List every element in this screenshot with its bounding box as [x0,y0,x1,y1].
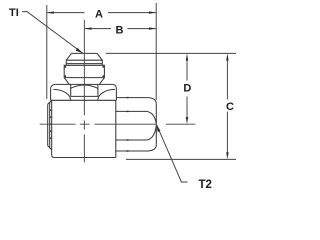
swivel nut right edge [155,104,157,145]
extension line left (A) [46,5,48,99]
hex face boundary left [70,84,72,96]
dimension C arrow up [226,53,228,60]
male stud top edge [71,52,97,54]
T1 leader arrowhead [76,48,83,53]
dimension C line [226,58,228,155]
extension line right (A,B) [155,3,157,100]
hex left scallop arc [53,89,70,100]
swivel nut T2 top edge [116,98,156,104]
swivel nut flat line lower [116,126,156,140]
svg-text:C: C [226,101,234,113]
hex corner round right [113,84,117,88]
dimension B arrow left [84,27,91,29]
body bottom edge [54,157,116,159]
collar strip bottom bevel [48,146,52,150]
hex middle face bottom [71,95,98,97]
stud flare seat line [66,59,102,61]
swivel nut flat line upper [116,111,156,123]
dimension A line [47,12,155,14]
T1 leader line [22,12,83,53]
stud lower chamfer right [99,78,104,85]
collar thread ticks [50,110,52,138]
horizontal centerline [40,123,196,125]
dimension D arrow up [186,53,188,60]
nut tick dots [127,98,129,151]
vertical centerline [83,20,85,162]
extension line top (C,D) [106,52,236,54]
svg-text:T2: T2 [199,179,212,191]
dimension D line [186,58,188,121]
swivel nut bottom edge [116,145,157,151]
thread tick marks [65,66,103,77]
svg-text:D: D [183,83,191,95]
collar strip right edge [49,102,51,149]
stud flare base line [66,63,102,65]
dimension B arrow right [149,27,156,29]
svg-text:B: B [116,25,124,37]
dimension A arrow left [47,11,54,13]
T2 leader arrowhead [156,125,160,132]
svg-text:TI: TI [9,7,19,19]
hex wrench flats top edge [55,83,112,85]
hex corner round left [51,84,56,88]
body right edge [115,100,117,157]
collar strip left edge [47,104,49,146]
collar strip top bevel [48,100,52,104]
dimension A arrow right [149,11,156,13]
stud lower chamfer left [64,78,69,85]
hex left side edge [50,89,52,101]
hex right side edge [115,89,117,101]
dimension B line [85,28,156,30]
hex right scallop arc [98,89,115,100]
body left edge [52,100,55,157]
male stud nose chamfer left [66,53,71,65]
male stud nose chamfer right [97,53,102,65]
male thread section T1 rectangle [64,65,104,77]
dimension D arrow down [186,117,188,124]
dimension C arrow down [226,152,228,159]
hex face boundary right [97,84,99,96]
body top edge [51,99,117,101]
T2 leader line [157,125,188,182]
extension line bottom (C) [126,158,236,160]
hex middle face arc [71,85,98,88]
svg-text:A: A [95,9,103,21]
